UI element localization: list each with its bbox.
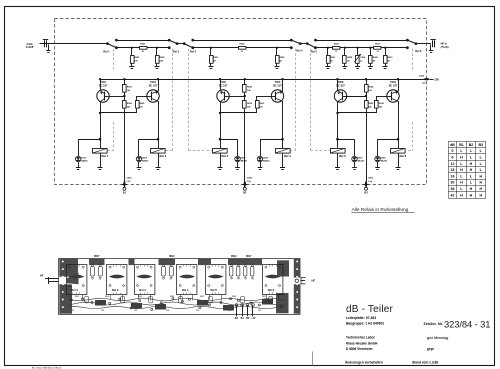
svg-text:Rel 4: Rel 4 — [284, 154, 291, 158]
svg-text:gepr: gepr — [427, 347, 435, 351]
svg-text:1,5n: 1,5n — [368, 181, 373, 183]
svg-text:1,5n: 1,5n — [247, 181, 252, 183]
svg-text:gez Messing: gez Messing — [426, 336, 449, 340]
svg-text:Rel 6: Rel 6 — [415, 49, 422, 53]
svg-text:6: 6 — [452, 155, 454, 159]
svg-text:R025: R025 — [347, 57, 353, 59]
svg-text:1,5n: 1,5n — [126, 181, 131, 183]
svg-text:R007: R007 — [94, 256, 100, 258]
svg-text:R081: R081 — [283, 296, 287, 298]
svg-text:(75+50): (75+50) — [441, 47, 449, 49]
svg-text:BA243: BA243 — [81, 160, 88, 163]
svg-text:R005: R005 — [134, 57, 140, 59]
svg-text:+7V: +7V — [251, 317, 256, 320]
svg-text:HF: HF — [312, 279, 316, 283]
svg-text:Alle Relais in Ruhestellung: Alle Relais in Ruhestellung — [352, 207, 409, 213]
svg-text:R021: R021 — [105, 296, 109, 298]
svg-text:R031: R031 — [330, 57, 336, 59]
svg-text:R010: R010 — [247, 103, 253, 105]
svg-text:Rel 3: Rel 3 — [222, 154, 229, 158]
svg-text:C05: C05 — [196, 310, 199, 312]
svg-text:Klaus Heuske GmbH: Klaus Heuske GmbH — [346, 341, 378, 345]
svg-text:C06: C06 — [228, 310, 231, 312]
svg-text:36: 36 — [451, 187, 455, 191]
svg-text:BC 327: BC 327 — [389, 84, 398, 87]
svg-text:Rel 1: Rel 1 — [103, 49, 110, 53]
svg-text:Rel 4: Rel 4 — [296, 49, 303, 53]
svg-text:Rel 5: Rel 5 — [311, 49, 318, 53]
svg-text:R071: R071 — [262, 296, 266, 298]
svg-text:R021: R021 — [213, 57, 219, 59]
svg-text:Rel 1: Rel 1 — [71, 288, 78, 292]
svg-text:R023: R023 — [231, 256, 237, 258]
svg-text:R009: R009 — [247, 87, 253, 89]
svg-text:BA243: BA243 — [142, 160, 149, 163]
svg-text:HF: HF — [40, 274, 44, 278]
svg-text:R028: R028 — [279, 57, 285, 59]
svg-text:C03: C03 — [134, 310, 137, 312]
svg-text:R026: R026 — [379, 103, 385, 105]
svg-text:R027: R027 — [246, 256, 252, 258]
svg-text:R003: R003 — [127, 87, 133, 89]
svg-text:C002: C002 — [126, 177, 132, 179]
svg-text:Rel 5: Rel 5 — [339, 154, 346, 158]
svg-text:Rel 2: Rel 2 — [112, 288, 119, 292]
svg-text:O+30ff: O+30ff — [26, 46, 34, 49]
svg-text:C004: C004 — [247, 176, 253, 179]
svg-text:Rel 6: Rel 6 — [400, 154, 407, 158]
svg-text:R025: R025 — [368, 103, 374, 105]
svg-text:Zeichn. Nr.: Zeichn. Nr. — [424, 322, 443, 326]
svg-text:R041: R041 — [170, 295, 174, 298]
svg-text:Stand vom 1.3.88: Stand vom 1.3.88 — [412, 360, 438, 364]
svg-text:B3: B3 — [479, 143, 484, 147]
svg-text:Rel 5: Rel 5 — [211, 288, 218, 292]
svg-text:Rel 2: Rel 2 — [173, 49, 180, 53]
svg-text:R051: R051 — [200, 296, 204, 298]
svg-text:B1: B1 — [459, 143, 464, 147]
svg-text:R004: R004 — [127, 102, 133, 105]
svg-text:C006: C006 — [368, 177, 374, 179]
svg-text:C07: C07 — [258, 310, 261, 312]
svg-text:dB: dB — [450, 143, 455, 147]
svg-text:42: 42 — [451, 193, 455, 197]
svg-text:R022: R022 — [239, 44, 245, 46]
svg-text:C08: C08 — [279, 310, 282, 312]
svg-text:Technisches Labor: Technisches Labor — [346, 336, 376, 340]
svg-text:BA243: BA243 — [263, 160, 270, 163]
svg-text:R033: R033 — [388, 57, 394, 59]
svg-text:R061: R061 — [232, 296, 236, 298]
svg-text:C304: C304 — [360, 56, 366, 59]
svg-text:C04: C04 — [166, 309, 169, 312]
svg-text:Änderungen vorbehalten: Änderungen vorbehalten — [345, 360, 383, 364]
svg-text:BA243: BA243 — [358, 160, 365, 163]
svg-text:R027: R027 — [375, 44, 381, 46]
svg-text:R022: R022 — [169, 256, 175, 258]
svg-text:R011: R011 — [75, 296, 79, 298]
svg-text:D 6806 Viernheim: D 6806 Viernheim — [346, 347, 373, 351]
svg-text:R029: R029 — [373, 57, 379, 59]
svg-text:24: 24 — [451, 174, 455, 178]
svg-text:Rel 3: Rel 3 — [139, 288, 146, 292]
svg-text:Rel 3: Rel 3 — [190, 49, 197, 53]
svg-text:12n: 12n — [422, 83, 426, 85]
svg-text:12V: 12V — [434, 78, 439, 82]
svg-text:R031: R031 — [138, 296, 142, 298]
svg-text:BC 327: BC 327 — [149, 84, 158, 87]
svg-text:Leiterplatte: 97-363: Leiterplatte: 97-363 — [346, 316, 376, 320]
svg-text:Rel 1: Rel 1 — [102, 154, 109, 158]
svg-text:R007: R007 — [140, 44, 146, 46]
svg-text:BC 327: BC 327 — [273, 84, 282, 87]
svg-text:R008: R008 — [159, 57, 165, 59]
svg-text:R024: R024 — [368, 86, 374, 89]
svg-text:30: 30 — [451, 181, 455, 185]
svg-text:BA243: BA243 — [381, 160, 388, 163]
svg-text:R006: R006 — [139, 103, 145, 105]
svg-text:Rel 2: Rel 2 — [160, 154, 167, 158]
svg-text:C01: C01 — [71, 310, 74, 312]
svg-text:B2: B2 — [469, 143, 474, 147]
svg-text:HF In: HF In — [441, 43, 448, 46]
svg-text:Rel 6: Rel 6 — [268, 288, 275, 292]
svg-text:323/84 - 31: 323/84 - 31 — [444, 318, 490, 329]
svg-text:12: 12 — [451, 162, 455, 166]
svg-text:R023: R023 — [334, 44, 340, 46]
svg-text:dB - Teiler: dB - Teiler — [346, 304, 394, 315]
svg-text:18: 18 — [451, 168, 455, 172]
svg-text:Baugruppe: 1 Hz 840651: Baugruppe: 1 Hz 840651 — [346, 322, 384, 326]
svg-text:0: 0 — [452, 149, 454, 153]
svg-text:R012: R012 — [259, 103, 265, 105]
svg-text:Rel 4: Rel 4 — [182, 288, 189, 292]
svg-text:C005: C005 — [419, 76, 425, 78]
svg-text:C02: C02 — [101, 310, 104, 312]
svg-text:BA243: BA243 — [241, 160, 248, 163]
